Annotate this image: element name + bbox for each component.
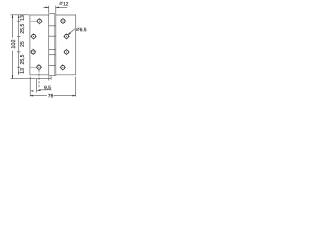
pin dim line	[49, 77, 51, 79]
label 102	[11, 40, 15, 48]
centerline extension below hole L4	[38, 70, 40, 88]
screw hole L4	[36, 64, 42, 70]
knuckle joint 1	[49, 25, 56, 27]
knuckle pin inner line	[54, 14, 56, 76]
centerline dash hole L2	[29, 35, 32, 37]
arrow leader dia6,5	[68, 32, 71, 35]
extension line 76 right	[75, 76, 77, 96]
arrow 76 right	[72, 95, 75, 97]
extension lines above knuckle	[49, 6, 56, 13]
extension line 9,5 left	[29, 76, 31, 96]
centerline dash hole L3	[29, 51, 32, 53]
knuckle joint 3	[49, 48, 56, 50]
label 9,5	[44, 86, 51, 90]
dim line 102	[12, 15, 14, 79]
screw hole R2	[63, 33, 69, 39]
arrow dia12 left	[45, 7, 48, 9]
screw hole L3	[30, 49, 36, 55]
leader line dia6,5	[68, 29, 75, 35]
label 76	[48, 94, 53, 98]
pin extension right	[50, 76, 52, 79]
screw hole L1	[36, 18, 42, 24]
knuckle joint 4	[49, 54, 56, 56]
arrow 102 bottom	[12, 75, 14, 78]
centerline dash hole L1	[30, 20, 36, 22]
label 13 top	[20, 15, 24, 20]
arrow 9,5 at left ext	[30, 90, 33, 92]
screw hole R1	[60, 18, 66, 24]
dia12 dimension line left part	[43, 6, 48, 8]
right leaf outline	[56, 15, 76, 75]
shelf line under 9,5	[39, 89, 52, 91]
label 25,5 upper	[20, 24, 24, 33]
arrow 9,5 leader	[37, 89, 41, 91]
dim line 76	[30, 95, 76, 97]
knuckle barrel	[49, 14, 56, 76]
screw hole R4	[60, 64, 66, 70]
label 13 bottom	[20, 68, 24, 73]
knuckle joint 2	[49, 35, 56, 37]
chain dimension line	[18, 15, 20, 75]
label dia 12	[59, 2, 62, 5]
arrow chain top	[18, 15, 20, 18]
extension line top left	[11, 14, 30, 16]
arrow dia12 right	[56, 7, 59, 9]
screw hole L2	[30, 33, 36, 39]
chain tick row3	[17, 51, 21, 53]
extension line 9,5 right	[36, 79, 38, 93]
chain tick row4	[17, 66, 21, 68]
centerline dash hole L4	[30, 66, 36, 68]
extension line bottom left	[11, 78, 49, 80]
arrow chain bottom	[18, 72, 20, 75]
left leaf outline	[30, 15, 49, 75]
label 25,5 lower	[20, 55, 24, 64]
arrow 102 top	[12, 15, 14, 18]
screw hole R3	[63, 49, 69, 55]
label dia 6,5	[76, 28, 80, 32]
chain tick row2	[17, 35, 21, 37]
arrow 76 left	[30, 95, 33, 97]
dia12 dimension line right part	[56, 6, 67, 8]
label 25 middle	[20, 41, 24, 46]
knuckle joint 5	[49, 64, 56, 66]
pin extension left	[48, 76, 50, 80]
chain tick row1	[17, 20, 21, 22]
